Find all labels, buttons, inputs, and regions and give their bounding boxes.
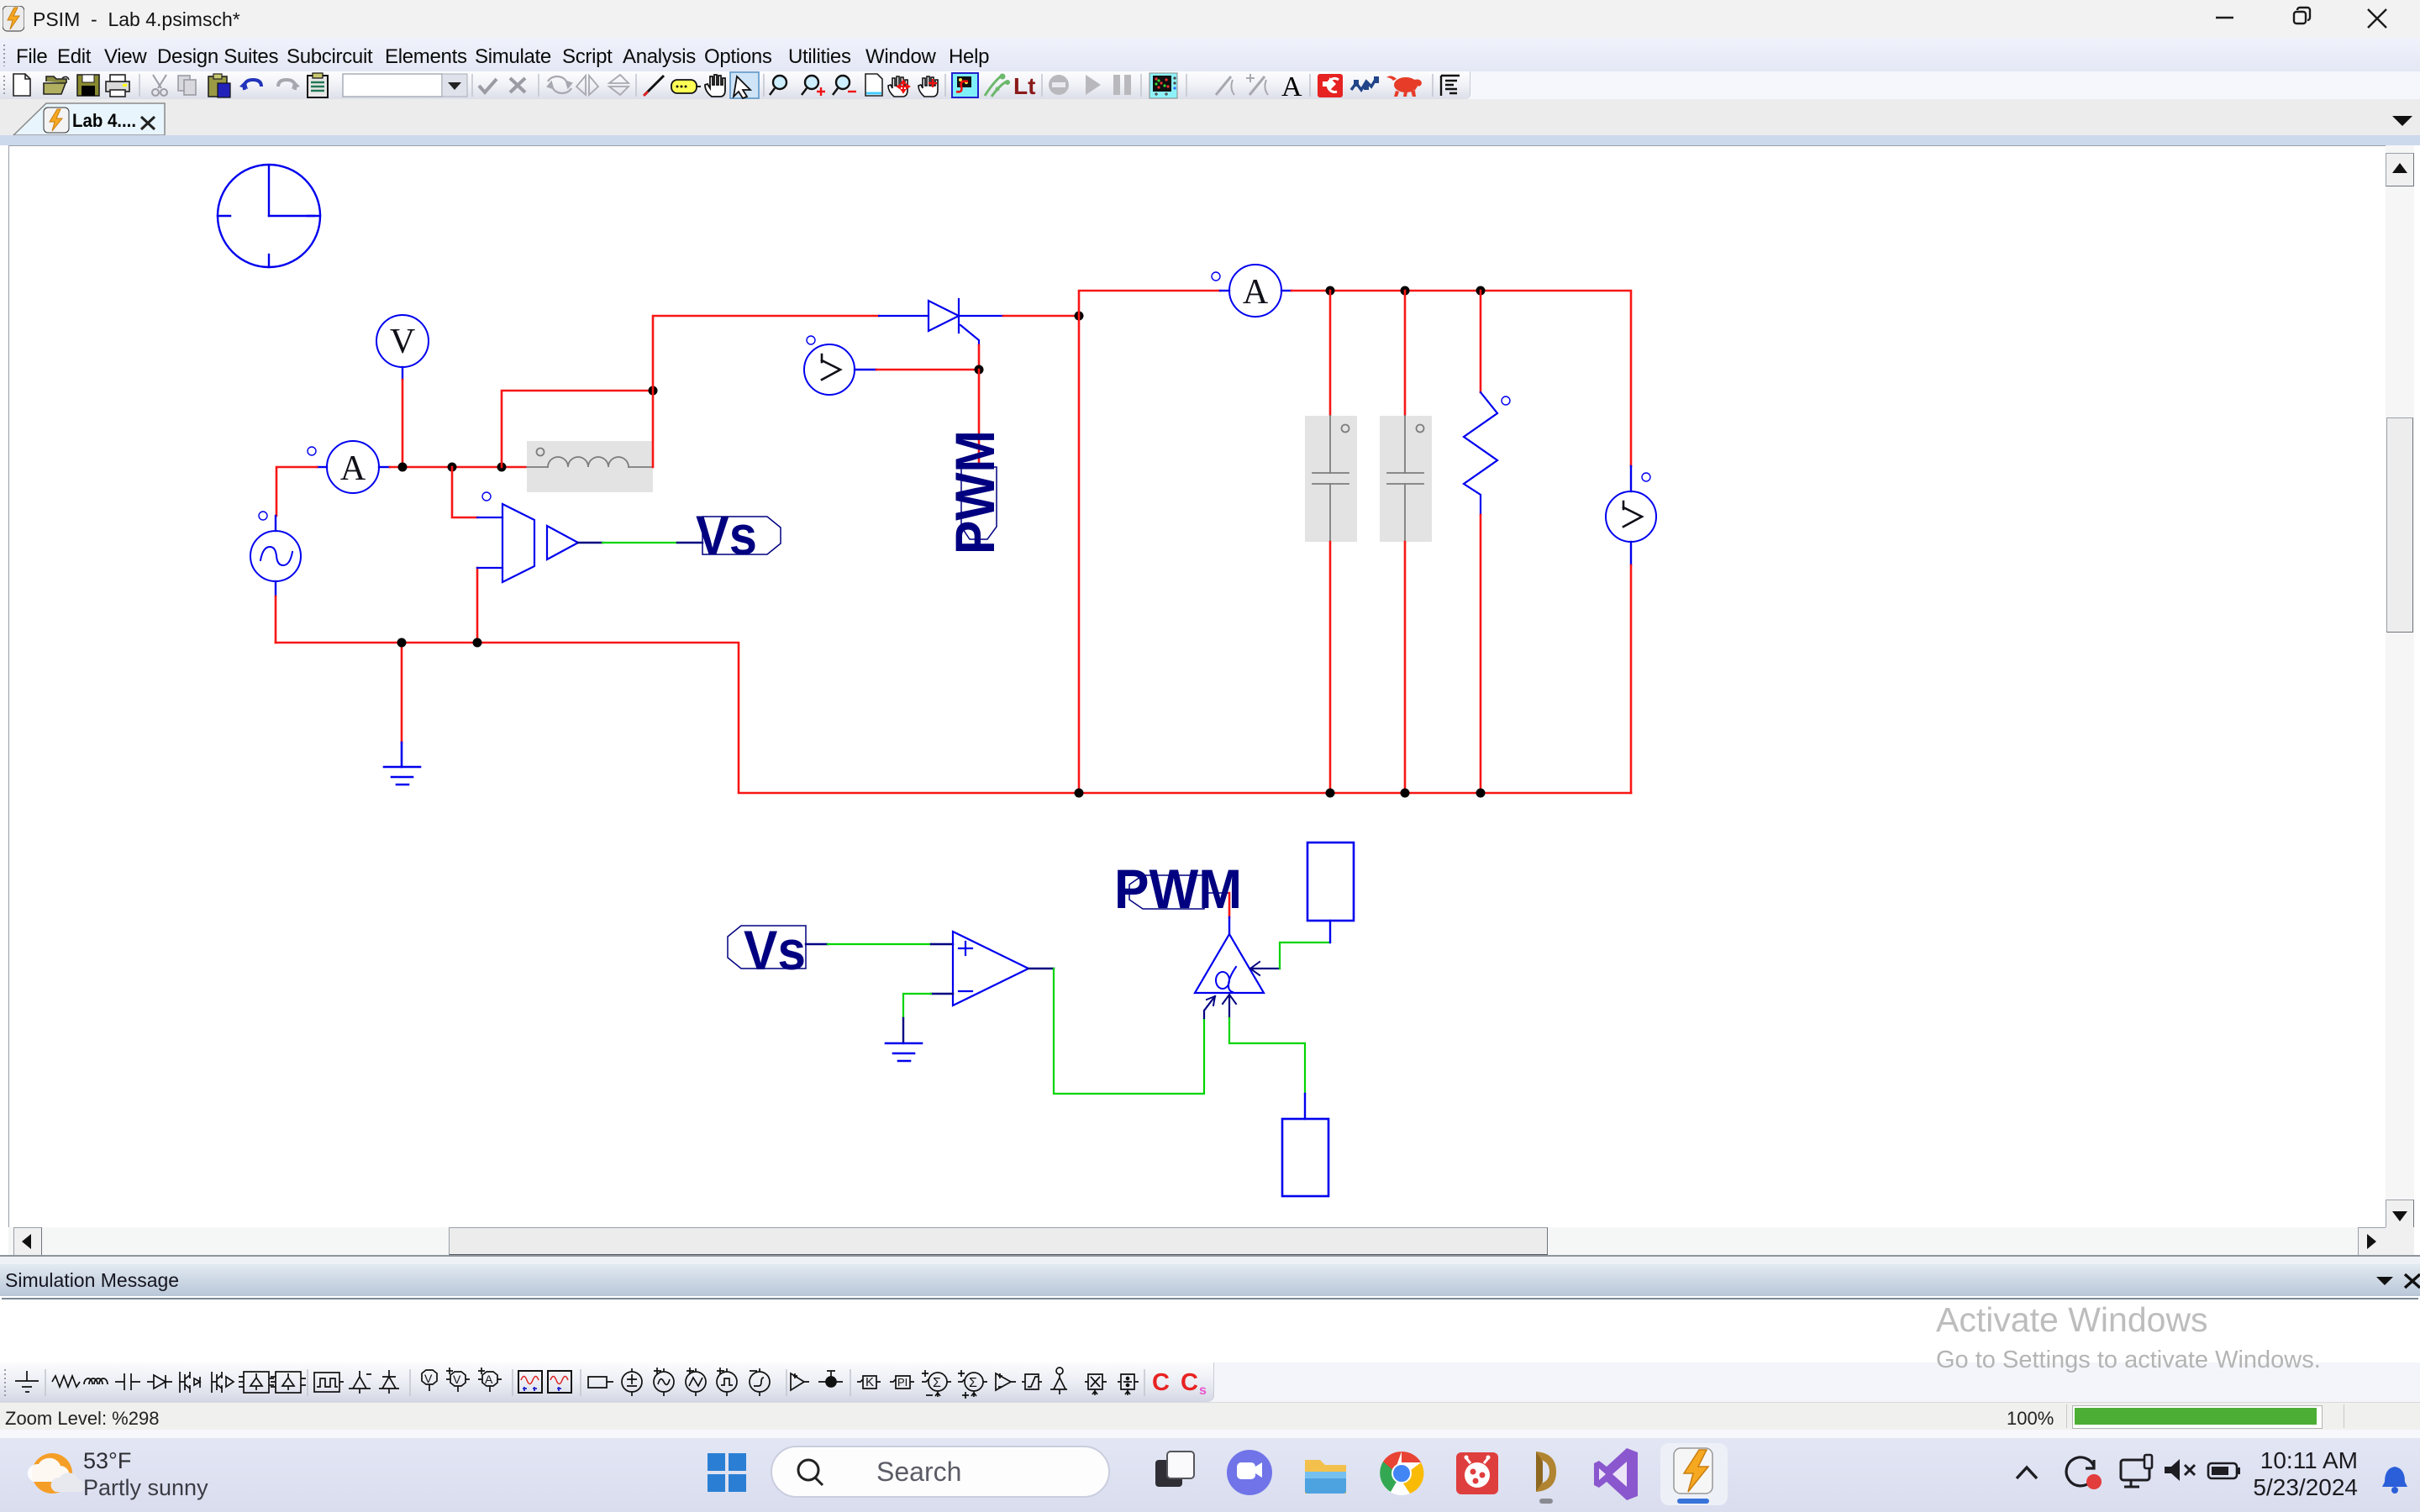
- label tag PWM vertical: [944, 430, 1006, 554]
- wire source to rail: [275, 596, 277, 643]
- wire probe2 to bottom rail: [1630, 565, 1633, 793]
- divider icon: [1118, 1374, 1139, 1395]
- wire bottom rail left: [276, 643, 1631, 793]
- wire op-amp output: [1028, 968, 1054, 969]
- tray update: [2066, 1457, 2094, 1486]
- stop: [1049, 75, 1069, 95]
- wire green minus to ground: [903, 994, 931, 1018]
- undo: [245, 80, 261, 90]
- alpha controller U2: [1195, 934, 1264, 993]
- svg-text:10:11 AM: 10:11 AM: [2260, 1447, 2358, 1473]
- wire pen: [644, 76, 664, 95]
- wire V1 to node: [402, 380, 404, 467]
- clock element CLK: [218, 165, 320, 267]
- simulation message header: [0, 1264, 2420, 1296]
- taskbar: [0, 1438, 2420, 1512]
- wire navy into left arrow: [1204, 996, 1215, 1018]
- scope: [1149, 73, 1177, 98]
- capacitor C2 highlighted: [1380, 416, 1432, 542]
- svg-text:Vs: Vs: [744, 919, 806, 981]
- explorer: [1305, 1460, 1346, 1494]
- svg-text:Partly sunny: Partly sunny: [83, 1475, 208, 1500]
- thyristor Q1: [879, 299, 1003, 345]
- wire green control segment: [602, 542, 677, 543]
- wire resistor bottom: [1480, 515, 1482, 793]
- pulsesrc icon: [717, 1368, 737, 1396]
- svg-text:A: A: [485, 1373, 493, 1386]
- diode up icon: [379, 1370, 399, 1394]
- label tag Vs (sense output): [696, 504, 781, 566]
- wave icon: [1351, 78, 1376, 90]
- search pill: [771, 1446, 1109, 1497]
- voltage probe VP1: [804, 336, 876, 395]
- print: [106, 81, 129, 92]
- ground icon: [15, 1371, 39, 1392]
- resistor icon: [52, 1376, 80, 1387]
- ground G1: [384, 743, 420, 785]
- bell: [2382, 1467, 2407, 1487]
- igbt icon: [212, 1372, 234, 1393]
- weather icon: [32, 1453, 72, 1494]
- summer1 icon: [922, 1370, 951, 1397]
- combo: [343, 74, 442, 97]
- rload icon: [588, 1377, 613, 1388]
- node dot N14: [1401, 789, 1410, 798]
- svg-text:s: s: [1199, 1383, 1207, 1398]
- play: [1086, 75, 1101, 95]
- wire inductor right up to top line: [653, 316, 879, 467]
- svg-text:K: K: [865, 1375, 874, 1389]
- inductor L1 highlighted: [527, 441, 653, 492]
- flip v: [609, 75, 629, 95]
- svg-text:V: V: [424, 1372, 433, 1385]
- node dot N6: [649, 386, 658, 396]
- ameter icon: [478, 1368, 502, 1392]
- wire top output rail: [1292, 291, 1631, 466]
- canvas: [8, 145, 2386, 1228]
- wire rail to multiplier bottom input: [476, 568, 479, 643]
- svg-text:Lab 4....: Lab 4....: [72, 110, 136, 131]
- label tag Vs (control input): [728, 919, 806, 981]
- red update: [1318, 74, 1343, 97]
- green squiggle: [985, 76, 1007, 97]
- node dot N2: [448, 463, 457, 472]
- diode icon: [147, 1375, 172, 1389]
- gain block G2: [547, 526, 578, 559]
- chat: [1227, 1450, 1272, 1495]
- node dot N13: [1326, 789, 1335, 798]
- inductor icon: [84, 1378, 108, 1384]
- wire navy into block2: [1304, 1094, 1306, 1119]
- node dot N10: [1401, 286, 1410, 296]
- ammeter A2: [1212, 265, 1292, 317]
- copy: [178, 76, 196, 95]
- wire green middle to block2: [1229, 1018, 1305, 1094]
- wire thyristor gate down: [978, 345, 981, 370]
- follower icon: [1050, 1368, 1067, 1394]
- mosfet icon: [179, 1372, 200, 1393]
- hand: [705, 75, 725, 97]
- node dot N3: [497, 463, 507, 472]
- wire resistor top: [1480, 291, 1482, 392]
- fit page: [865, 74, 882, 96]
- zoom: [770, 76, 786, 95]
- ac source VS1: [250, 512, 301, 596]
- PI block icon: [890, 1376, 914, 1389]
- arrow head middle input: [1223, 995, 1236, 1004]
- flip h: [576, 76, 598, 95]
- check: [479, 79, 497, 92]
- summer2 icon: [958, 1370, 987, 1399]
- new: [13, 74, 30, 96]
- wire navy to block1: [1329, 921, 1331, 942]
- wire green from block1: [1280, 942, 1330, 969]
- hand plus: [918, 76, 938, 97]
- ladybug app: [1456, 1452, 1498, 1494]
- svg-text:V: V: [453, 1373, 461, 1386]
- multiplier icon: [1085, 1374, 1107, 1395]
- elephant: [1386, 76, 1422, 97]
- opamp icon: [996, 1373, 1016, 1390]
- wire PWM tag to comparator apex: [1228, 893, 1231, 917]
- svg-text:A: A: [340, 449, 366, 488]
- scope2ch icon: [518, 1371, 542, 1393]
- node dot N5: [473, 638, 482, 648]
- toolbar: [0, 71, 2420, 99]
- tab row right dropdown: [2391, 113, 2416, 129]
- cut: [152, 75, 167, 96]
- zoom-: [833, 76, 856, 95]
- wire right arrow into comparator: [1253, 968, 1280, 969]
- scope1ch icon: [548, 1371, 571, 1393]
- psim active chip: [1660, 1443, 1728, 1505]
- sinesrc icon: [654, 1368, 674, 1396]
- node dot N1: [398, 463, 408, 472]
- svg-text:Σ: Σ: [933, 1376, 941, 1390]
- wire N3 up-right to inductor right: [502, 391, 653, 467]
- tray battery: [2208, 1463, 2237, 1478]
- wire gain output to Vs label: [578, 542, 602, 543]
- svg-text:A: A: [1281, 71, 1302, 99]
- wire thyristor cathode to node: [1003, 315, 1079, 318]
- hand move: [888, 76, 907, 97]
- status bar: [0, 1402, 2420, 1431]
- svg-text:PWM: PWM: [944, 430, 1006, 554]
- wire A1 left to source: [276, 467, 317, 516]
- wire N2 to multiplier top input: [452, 467, 477, 517]
- menu bar: [0, 38, 2420, 71]
- svg-text:Σ: Σ: [969, 1376, 977, 1390]
- svg-text:V: V: [390, 323, 415, 361]
- zoom+: [802, 76, 825, 96]
- voltprobe icon: [818, 1371, 843, 1382]
- start button: [708, 1453, 746, 1492]
- wire navy to plus input: [931, 943, 953, 945]
- node dot N12: [1075, 789, 1084, 798]
- op-amp U1: [953, 932, 1028, 1005]
- svg-text:Vs: Vs: [696, 504, 757, 566]
- open: [46, 76, 66, 83]
- stepsrc icon: [750, 1368, 770, 1396]
- scr up icon: [349, 1371, 371, 1394]
- probe1: [1216, 76, 1234, 95]
- node dot N11: [1476, 286, 1486, 296]
- svg-text:PWM: PWM: [1114, 858, 1242, 920]
- vertical scrollbar: [2386, 145, 2414, 1227]
- svg-text:5/23/2024: 5/23/2024: [2253, 1474, 2358, 1500]
- vmeter icon: [446, 1368, 470, 1392]
- svg-text:PI: PI: [897, 1376, 907, 1389]
- label: [671, 80, 697, 93]
- wire green opamp to comparator: [1054, 969, 1204, 1094]
- K gain icon: [857, 1376, 881, 1389]
- watermark: [1936, 1300, 2208, 1340]
- wire cap C2 top: [1404, 291, 1407, 416]
- wire ground drop: [401, 643, 403, 743]
- svg-text:C: C: [1152, 1369, 1170, 1396]
- bottom element toolbar: [0, 1362, 2420, 1402]
- arrow head left input: [1207, 996, 1215, 1005]
- wire gate node down to PWM tag: [978, 370, 981, 467]
- wire Vs tag to op-amp: [806, 943, 828, 945]
- tray speaker muted: [2165, 1459, 2180, 1481]
- bridge2 icon: [276, 1372, 301, 1393]
- resistor R1: [1464, 392, 1510, 515]
- rotate: [548, 76, 571, 93]
- wire A1 right to inductor: [390, 466, 527, 469]
- svg-text:Lt: Lt: [1013, 73, 1035, 99]
- window title bar: [0, 0, 2420, 38]
- block B1: [1307, 843, 1354, 921]
- vprobe icon: [422, 1370, 437, 1391]
- ground G2: [886, 1043, 922, 1061]
- sinesrc2 icon: [686, 1368, 706, 1396]
- redo: [278, 80, 295, 90]
- svg-text:Search: Search: [876, 1457, 961, 1487]
- capacitor C1 highlighted: [1305, 416, 1357, 542]
- horizontal scrollbar: [8, 1227, 2386, 1255]
- svg-text:A: A: [1243, 273, 1269, 312]
- visual studio: [1594, 1448, 1638, 1500]
- node dot N8: [975, 365, 984, 375]
- capacitor icon: [115, 1373, 140, 1390]
- list icon: [1441, 76, 1460, 96]
- dcsrc icon: [622, 1368, 642, 1396]
- wire middle arrow stem: [1228, 996, 1230, 1018]
- node dot N4: [397, 638, 407, 648]
- tray chevron: [2017, 1467, 2037, 1478]
- label tag PWM (gate drive): [1114, 858, 1242, 920]
- squarewave icon: [314, 1373, 339, 1392]
- svg-text:C: C: [1181, 1369, 1198, 1396]
- pause: [1113, 75, 1120, 95]
- svg-text:53°F: 53°F: [83, 1448, 131, 1473]
- tab row: [0, 99, 2420, 135]
- paste: [208, 76, 227, 97]
- sim clipboard: [308, 76, 328, 97]
- wire probe to gate node: [876, 369, 979, 371]
- wire blue apex stub: [1228, 917, 1230, 934]
- wire navy into Vs tag: [677, 542, 702, 543]
- bridge1 icon: [244, 1372, 269, 1393]
- arrow head right input: [1250, 962, 1260, 975]
- wire N7 up to output top rail: [1079, 291, 1220, 316]
- tray monitor: [2121, 1460, 2149, 1480]
- node dot N15: [1476, 789, 1486, 798]
- ctrlamp icon: [791, 1373, 809, 1390]
- ammeter A1: [308, 441, 390, 493]
- wire minus input: [931, 993, 953, 995]
- voltmeter V1: [376, 315, 429, 380]
- probe2: [1249, 76, 1268, 95]
- S icon: [952, 73, 978, 97]
- voltage probe VP2: [1606, 466, 1656, 565]
- wire cap C1 top: [1329, 291, 1332, 416]
- cursor selected: [730, 72, 759, 98]
- wire cap C2 bottom: [1404, 542, 1407, 793]
- multiplier block M1: [477, 492, 534, 582]
- save: [77, 75, 99, 96]
- wire N7 down to bottom rail: [1078, 316, 1081, 793]
- block B2: [1282, 1119, 1328, 1196]
- gold D app: [1536, 1452, 1556, 1492]
- wire green Vs: [828, 943, 931, 945]
- task view: [1155, 1460, 1182, 1487]
- wire navy ground stem: [902, 1018, 904, 1043]
- node dot N9: [1326, 286, 1335, 296]
- node dot N7: [1075, 312, 1084, 321]
- chrome: [1380, 1452, 1423, 1495]
- wire cap C1 bottom: [1329, 542, 1332, 793]
- limiter icon: [1022, 1374, 1042, 1389]
- cross: [510, 78, 525, 92]
